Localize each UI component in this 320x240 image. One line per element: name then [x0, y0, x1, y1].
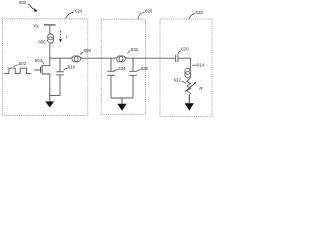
label 610	[64, 64, 76, 70]
svg-text:624: 624	[75, 9, 83, 14]
label 620	[178, 47, 189, 55]
dashed box 624 (amplifier stage)	[3, 19, 88, 116]
svg-text:610: 610	[68, 64, 76, 69]
svg-text:606: 606	[38, 39, 46, 44]
figure reference 600 with arrow	[19, 0, 38, 12]
dashed box 630 (load network)	[160, 19, 212, 117]
current direction arrow I	[59, 31, 68, 43]
label 624	[66, 9, 83, 19]
wire: node to inductor 608	[50, 57, 70, 59]
label 626	[138, 8, 153, 18]
label 608	[81, 48, 92, 55]
svg-text:614: 614	[197, 62, 205, 67]
ground (left)	[45, 96, 54, 108]
svg-text:R: R	[199, 86, 203, 91]
input square wave 602	[4, 68, 31, 73]
inductor/choke 606 (bias feed)	[48, 34, 54, 44]
svg-text:I: I	[66, 34, 68, 39]
svg-text:632: 632	[131, 47, 139, 52]
svg-text:604: 604	[35, 58, 43, 63]
svg-text:602: 602	[19, 61, 27, 66]
wire: middle ground bus	[111, 97, 133, 99]
ground (right)	[185, 95, 194, 110]
wire: source/cap ground bus	[50, 95, 60, 97]
label 602	[14, 61, 27, 67]
capacitor 610	[56, 58, 64, 95]
ground (middle)	[117, 98, 126, 111]
label 632	[128, 47, 139, 54]
wire: inductor 632 to cap 620	[127, 57, 176, 59]
inductor 632	[115, 56, 127, 62]
svg-text:620: 620	[181, 47, 189, 52]
wire: choke to drain node	[49, 43, 51, 58]
svg-text:626: 626	[145, 8, 153, 13]
svg-text:622: 622	[174, 77, 182, 82]
capacitor 634	[107, 58, 115, 98]
svg-text:630: 630	[196, 10, 204, 15]
label 622	[174, 77, 186, 83]
svg-text:634: 634	[118, 66, 126, 71]
svg-text:600: 600	[19, 0, 27, 5]
svg-text:608: 608	[84, 48, 92, 53]
transistor 604 (MOSFET switch)	[34, 58, 50, 95]
supply rail VB	[33, 23, 55, 34]
capacitor 636	[129, 58, 137, 98]
variable resistor 622	[185, 79, 196, 95]
label 636	[137, 66, 149, 71]
inductor 608	[70, 56, 82, 62]
capacitor 620 (series)	[176, 55, 178, 62]
wire: inductor 608 to inductor 632	[82, 57, 115, 59]
svg-text:B: B	[37, 25, 40, 29]
label 630	[189, 10, 203, 19]
inductor 614 (vertical coil)	[185, 68, 191, 79]
label 614	[192, 62, 205, 67]
dashed box 626 (filter stage)	[101, 19, 145, 114]
svg-text:636: 636	[141, 66, 149, 71]
label 634	[114, 66, 126, 71]
wire: cap 620 to corner and down	[178, 58, 190, 68]
label 604	[35, 58, 44, 65]
